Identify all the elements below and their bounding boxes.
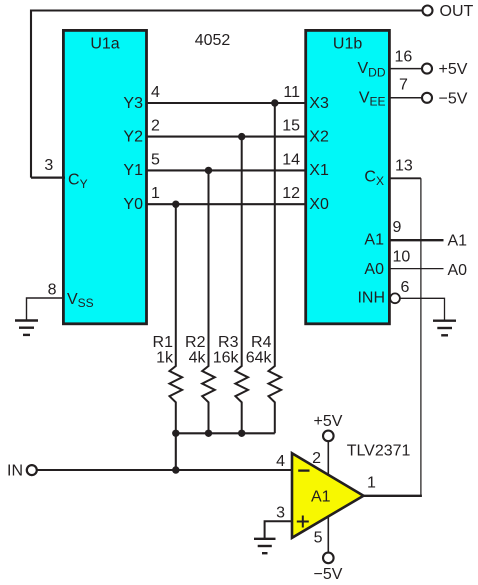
svg-text:−5V: −5V (439, 90, 468, 107)
svg-text:11: 11 (283, 84, 300, 101)
resistor R1 (170, 204, 183, 433)
wire VSS pin (27, 298, 65, 320)
svg-text:U1a: U1a (90, 35, 119, 52)
resistor R4 (269, 103, 282, 433)
wire CY pin (31, 177, 65, 179)
svg-text:64k: 64k (246, 350, 273, 367)
node: bus/R1 junction (172, 430, 179, 437)
ground at VSS (15, 321, 38, 335)
op-amp minus sign (298, 469, 309, 471)
terminal -5V (op-amp) (323, 553, 334, 564)
inverter bubble INH (390, 293, 400, 303)
svg-text:A0: A0 (364, 261, 384, 278)
svg-text:16k: 16k (213, 350, 240, 367)
terminal OUT (423, 6, 433, 16)
node: bus/R2 junction (205, 430, 212, 437)
svg-text:4052: 4052 (195, 32, 231, 49)
svg-text:10: 10 (393, 248, 411, 265)
svg-text:R4: R4 (251, 334, 272, 351)
wire summing bus (176, 432, 275, 434)
wire op-amp V+ (327, 442, 329, 477)
svg-text:INH: INH (357, 290, 385, 307)
svg-text:2: 2 (312, 450, 321, 467)
svg-text:14: 14 (282, 151, 300, 168)
node: Y2/R3 junction (238, 133, 245, 140)
wire bus to input node (175, 433, 177, 470)
svg-text:12: 12 (282, 185, 300, 202)
wire VDD pin (389, 68, 423, 70)
svg-text:+5V: +5V (439, 61, 468, 78)
svg-text:15: 15 (282, 118, 300, 135)
wire Y0 to X0 (146, 203, 306, 205)
terminal +5V (VDD) (422, 64, 432, 74)
wire: output feedback top horizontal (31, 11, 422, 178)
svg-text:R1: R1 (153, 334, 174, 351)
svg-text:5: 5 (151, 151, 160, 168)
svg-text:Y0: Y0 (123, 196, 143, 213)
svg-text:2: 2 (151, 118, 160, 135)
ground at op-amp + input (254, 539, 276, 553)
svg-text:−5V: −5V (314, 566, 343, 583)
svg-text:3: 3 (44, 157, 53, 174)
terminal -5V (VEE) (422, 93, 432, 103)
terminal +5V (op-amp) (323, 431, 334, 442)
wire feedback vertical (420, 178, 422, 496)
svg-text:TLV2371: TLV2371 (347, 443, 411, 460)
node: IN/bus junction (172, 466, 179, 473)
svg-text:Y3: Y3 (123, 95, 143, 112)
svg-text:IN: IN (7, 462, 23, 479)
svg-text:1k: 1k (156, 350, 174, 367)
IC U1b (306, 30, 390, 323)
svg-text:+5V: +5V (314, 413, 343, 430)
svg-text:8: 8 (48, 281, 57, 298)
svg-text:9: 9 (393, 219, 402, 236)
svg-text:1: 1 (151, 185, 160, 202)
svg-text:4: 4 (276, 453, 285, 470)
svg-text:R3: R3 (218, 334, 239, 351)
svg-text:A1: A1 (364, 231, 384, 248)
wire A0 pin (389, 268, 444, 270)
svg-text:5: 5 (314, 530, 323, 547)
svg-text:Y1: Y1 (123, 162, 143, 179)
svg-text:X0: X0 (309, 196, 329, 213)
svg-text:U1b: U1b (333, 35, 362, 52)
op-amp plus sign (297, 516, 309, 528)
wire CX to feedback (389, 177, 421, 179)
wire op-amp + input to ground (265, 521, 292, 538)
terminal IN (27, 465, 37, 475)
svg-text:R2: R2 (185, 334, 206, 351)
wire IN to op-amp inverting input (37, 469, 292, 471)
resistor R2 (202, 170, 215, 433)
svg-text:A0: A0 (448, 262, 468, 279)
IC U1a (63, 30, 146, 323)
wire Y1 to X1 (146, 169, 306, 171)
svg-text:4: 4 (151, 84, 160, 101)
node: Y0/R1 junction (172, 201, 179, 208)
svg-text:1: 1 (367, 475, 376, 492)
node: Y1/R2 junction (205, 167, 212, 174)
svg-text:A1: A1 (311, 488, 331, 505)
op-amp A1 (292, 453, 364, 538)
svg-text:6: 6 (401, 279, 410, 296)
wire INH to ground (400, 298, 445, 320)
svg-text:X1: X1 (309, 162, 329, 179)
svg-text:3: 3 (276, 505, 285, 522)
svg-text:A1: A1 (448, 233, 468, 250)
svg-text:Y2: Y2 (123, 128, 143, 145)
node: bus/R3 junction (238, 430, 245, 437)
wire Y2 to X2 (146, 136, 306, 138)
wire op-amp output (363, 495, 422, 497)
wire Y3 to X3 (146, 102, 306, 104)
wire VEE pin (389, 97, 423, 99)
ground at INH (433, 321, 456, 336)
node: Y3/R4 junction (271, 99, 278, 106)
svg-text:4k: 4k (189, 350, 207, 367)
svg-text:16: 16 (395, 49, 413, 66)
wire op-amp V- (327, 516, 329, 552)
svg-text:OUT: OUT (440, 3, 474, 20)
resistor R3 (235, 137, 248, 434)
svg-text:X3: X3 (309, 95, 329, 112)
svg-text:7: 7 (399, 76, 408, 93)
wire A1 pin (389, 239, 444, 241)
svg-text:X2: X2 (309, 128, 329, 145)
svg-text:13: 13 (395, 157, 413, 174)
